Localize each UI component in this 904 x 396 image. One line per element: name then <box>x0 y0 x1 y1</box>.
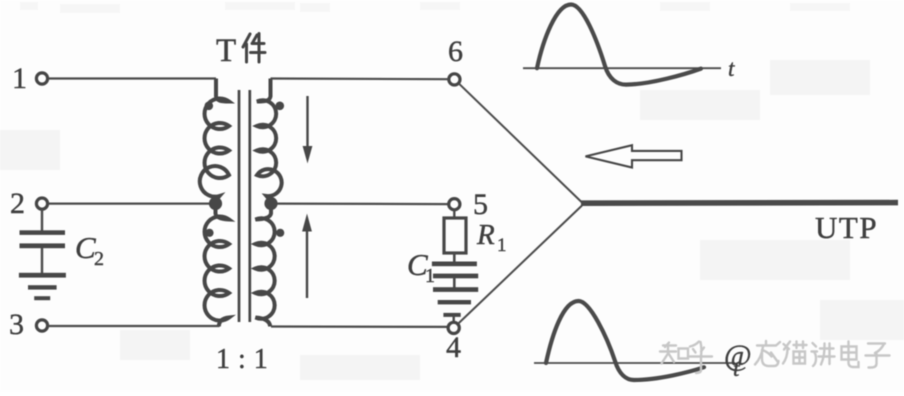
wire from terminal 2 to primary center tap <box>48 203 209 205</box>
watermark 知乎 @龙猫讲电子 <box>660 341 890 373</box>
C1 to ground lead <box>453 277 456 288</box>
transformer primary winding upper (pins 1-2) <box>200 79 229 203</box>
svg-text:1: 1 <box>497 235 507 256</box>
svg-text:@: @ <box>724 339 752 372</box>
resistor R1 lead <box>453 209 455 218</box>
current arrow down (upper secondary) <box>303 96 313 164</box>
svg-text:T: T <box>216 33 236 69</box>
waveform top: pulse curve <box>537 5 701 85</box>
signal direction arrow <box>586 145 682 167</box>
svg-text:3: 3 <box>9 308 24 341</box>
svg-text:2: 2 <box>94 248 104 270</box>
svg-text:t: t <box>728 56 735 81</box>
transformer core <box>238 90 241 322</box>
waveform bottom: time axis <box>534 362 735 364</box>
capacitor C2 <box>20 230 66 248</box>
terminal 5 <box>449 199 460 210</box>
transformer T1 label T件 <box>216 33 265 69</box>
polarity dot lower-left <box>205 229 213 237</box>
svg-text:1: 1 <box>425 265 435 287</box>
wire from terminal 1 to transformer primary top <box>48 77 216 79</box>
svg-text:R: R <box>476 219 495 251</box>
svg-text:2: 2 <box>10 187 25 220</box>
R1 to C1 lead <box>453 253 456 262</box>
transformer secondary winding lower (pins 5-4) <box>256 204 275 327</box>
terminal 6 <box>449 74 460 85</box>
capacitor C2 lead <box>41 209 43 231</box>
svg-text:C: C <box>75 230 96 265</box>
transformer secondary winding upper (pins 6-5) <box>257 79 282 203</box>
terminal 4 <box>448 322 459 333</box>
resistor R1 <box>444 218 466 253</box>
wire center tap right to terminal 5 <box>277 203 449 206</box>
wire from terminal 3 to primary bottom <box>48 325 220 327</box>
svg-text:UTP: UTP <box>815 210 878 245</box>
svg-text:1:1: 1:1 <box>216 344 268 375</box>
terminal 3 <box>36 320 47 331</box>
junction dot node 5 tap <box>264 197 277 210</box>
UTP cable <box>581 200 898 206</box>
polarity dot upper-right <box>276 102 285 111</box>
wire transformer top right to terminal 6 <box>271 77 449 80</box>
capacitor C1 <box>432 262 478 279</box>
svg-text:1: 1 <box>12 62 27 95</box>
wire transformer bottom right to terminal 4 <box>271 325 448 328</box>
diagonal wire terminal 4 to UTP split <box>458 206 582 324</box>
current arrow up (lower secondary) <box>302 214 312 299</box>
polarity dot lower-right <box>276 229 284 237</box>
terminal 2 <box>36 198 47 209</box>
polarity dot upper-left <box>205 102 214 111</box>
ground (right) <box>433 287 478 317</box>
C2 to ground lead <box>41 248 43 273</box>
waveform top: time axis <box>523 67 721 69</box>
junction dot node 2 tap <box>209 197 222 210</box>
svg-text:4: 4 <box>446 331 461 364</box>
svg-text:5: 5 <box>473 188 488 221</box>
diagonal wire terminal 6 to UTP split <box>459 83 582 202</box>
svg-text:6: 6 <box>448 35 463 68</box>
transformer primary winding lower (pins 2-3) <box>205 204 229 327</box>
ground (left) <box>19 273 66 300</box>
ground to terminal 4 lead <box>453 316 455 323</box>
waveform bottom: pulse curve <box>546 301 704 380</box>
terminal 1 <box>36 73 47 84</box>
